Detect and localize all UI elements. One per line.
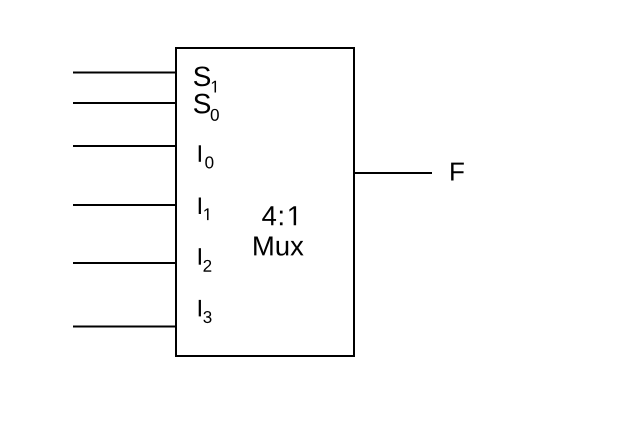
wire data input I1 <box>73 204 176 206</box>
pin label I1 <box>199 197 209 220</box>
pin label S0 <box>194 94 219 121</box>
pin label S1 <box>194 66 216 92</box>
pin label I2 <box>199 248 212 272</box>
wire select input S1 <box>73 72 176 74</box>
wire data input I2 <box>73 262 176 264</box>
value label 4:1 <box>262 206 296 225</box>
value label Mux <box>254 236 303 255</box>
wire output F <box>354 172 432 174</box>
pin label I0 <box>199 145 214 168</box>
wire select input S0 <box>73 102 176 104</box>
node label F (output) <box>451 163 464 181</box>
mux body U1 (4:1 multiplexer box) <box>176 48 354 356</box>
wire data input I0 <box>73 145 176 147</box>
pin label I3 <box>199 300 212 323</box>
wire data input I3 <box>73 326 176 328</box>
